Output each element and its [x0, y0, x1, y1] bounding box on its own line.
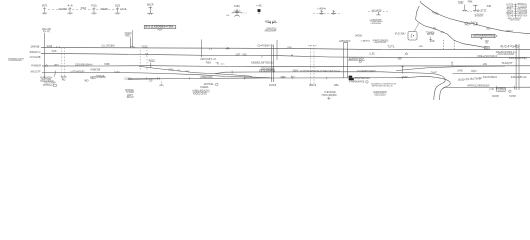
- svg-text:2.F7AG3B: 2.F7AG3B: [30, 56, 41, 59]
- svg-text:43LXKSP: 43LXKSP: [372, 10, 382, 13]
- svg-text:T3E28K: T3E28K: [101, 9, 109, 11]
- svg-text:WR5X))2285M)53)S: WR5X))2285M)53)S: [467, 84, 490, 88]
- svg-text:CSGE00-: CSGE00-: [200, 87, 209, 89]
- svg-text:2+BAHX0G: 2+BAHX0G: [361, 40, 371, 43]
- svg-text:WU4F5W: WU4F5W: [59, 9, 68, 11]
- svg-text:C)=FX6W(-T): C)=FX6W(-T): [257, 45, 273, 48]
- svg-text:U9-7L: U9-7L: [121, 9, 128, 11]
- svg-text:.W764L.: .W764L.: [203, 82, 215, 86]
- svg-text:1USU: 1USU: [114, 72, 120, 74]
- svg-text:=-MAW64G5: =-MAW64G5: [349, 79, 365, 83]
- svg-text:C8T: C8T: [236, 54, 241, 56]
- svg-text:R): R): [62, 77, 66, 81]
- svg-text:P1G20: P1G20: [142, 46, 148, 48]
- svg-text:041E: 041E: [280, 76, 286, 79]
- svg-text:RX)X: RX)X: [471, 71, 477, 73]
- svg-text:+7CL5=1K+4)XHSD: +7CL5=1K+4)XHSD: [497, 54, 515, 56]
- svg-text:FMM+: FMM+: [334, 85, 340, 87]
- svg-text:WN5T+T5A: WN5T+T5A: [518, 14, 528, 17]
- svg-text:2BH: 2BH: [486, 28, 491, 30]
- svg-text:D25: D25: [115, 4, 121, 7]
- svg-text:8147C8(KA: 8147C8(KA: [483, 75, 497, 79]
- svg-text:)F.GCX8U: )F.GCX8U: [395, 33, 406, 36]
- svg-text:W4H1: W4H1: [47, 46, 53, 48]
- svg-text:)(M5H3B: )(M5H3B: [31, 46, 40, 48]
- svg-text:8-9.)1XB09B9=73M..: 8-9.)1XB09B9=73M..: [145, 25, 175, 29]
- svg-text:TAHM: TAHM: [509, 94, 516, 98]
- svg-text:FDE+(S4=K2C4: FDE+(S4=K2C4: [477, 54, 497, 58]
- svg-text:.DS: .DS: [149, 81, 153, 83]
- svg-text:4)-5.4=G4G: 4)-5.4=G4G: [500, 45, 519, 49]
- svg-text:D459.GR8)H7RE((: D459.GR8)H7RE((: [509, 58, 527, 60]
- svg-text:208E2L8G: 208E2L8G: [200, 75, 213, 79]
- svg-text:9G8: 9G8: [430, 39, 435, 43]
- svg-text:HX)-=: HX)-=: [125, 35, 131, 37]
- svg-text:.K: .K: [440, 30, 444, 34]
- svg-text:4-6: 4-6: [67, 4, 73, 7]
- svg-text:A35S)KFK: A35S)KFK: [339, 39, 351, 43]
- svg-text:.9SM: .9SM: [418, 46, 423, 48]
- svg-text:SGW(8: SGW(8: [269, 85, 277, 87]
- svg-text:N+: N+: [485, 45, 490, 49]
- svg-text:B6CR: B6CR: [147, 3, 154, 7]
- svg-text:4TS4RWH3H63K9: 4TS4RWH3H63K9: [8, 60, 21, 62]
- svg-text:HN3(: HN3(: [159, 85, 164, 87]
- svg-text:R2CB: R2CB: [492, 94, 498, 98]
- svg-text:CLL.DKX)BH: CLL.DKX)BH: [102, 46, 115, 48]
- svg-text:8WGT: 8WGT: [506, 30, 513, 33]
- svg-text:A7N3609: A7N3609: [475, 14, 483, 17]
- svg-text:A9PKA.A46S: A9PKA.A46S: [90, 75, 106, 79]
- svg-text:-RM8: -RM8: [467, 2, 473, 4]
- svg-text:6=+: 6=+: [291, 77, 295, 79]
- svg-text:1): 1): [209, 49, 212, 51]
- svg-text:RGC: RGC: [149, 59, 156, 63]
- svg-text:=H)CF)05G59: =H)CF)05G59: [374, 42, 387, 44]
- svg-text:P38: P38: [243, 54, 247, 56]
- svg-text:S+LU: S+LU: [431, 72, 437, 74]
- svg-text:T2T1: T2T1: [387, 44, 395, 48]
- svg-text:(9K: (9K: [398, 58, 403, 60]
- svg-text:W1T: W1T: [54, 65, 59, 67]
- svg-text:P+.U): P+.U): [43, 31, 50, 33]
- svg-text:=63F: =63F: [158, 29, 164, 31]
- svg-text:-6R: -6R: [486, 5, 491, 8]
- svg-text:HR8): HR8): [169, 69, 174, 71]
- svg-text:05H5: 05H5: [293, 70, 299, 72]
- svg-text:++RL: ++RL: [256, 5, 263, 8]
- svg-text:65GH: 65GH: [473, 25, 478, 27]
- svg-text:92DG2D0: 92DG2D0: [374, 92, 386, 96]
- svg-text:D53UX8K(38A=U: D53UX8K(38A=U: [75, 64, 93, 67]
- svg-text:K)4D(CLCE+EG: K)4D(CLCE+EG: [193, 93, 207, 95]
- svg-text:N5MF: N5MF: [104, 64, 110, 66]
- svg-text:FHW)MCR: FHW)MCR: [31, 65, 41, 67]
- svg-text:643D(: 643D(: [234, 6, 240, 8]
- svg-text:4DL79R: 4DL79R: [427, 34, 434, 36]
- svg-text:K09U: K09U: [459, 3, 464, 5]
- svg-text:M9T3: M9T3: [42, 4, 48, 7]
- svg-text:AN9(U24MNP: AN9(U24MNP: [265, 30, 277, 33]
- svg-text:G)FM: G)FM: [498, 87, 506, 91]
- svg-text:LLE5: LLE5: [369, 53, 375, 55]
- svg-text:(CL82=: (CL82=: [125, 79, 133, 81]
- svg-text:.8WCD1GDK): .8WCD1GDK): [509, 19, 520, 21]
- svg-text:-WM: -WM: [226, 15, 230, 17]
- svg-text:5G5E4G7+0: 5G5E4G7+0: [30, 52, 41, 54]
- svg-text:37E3: 37E3: [81, 8, 87, 10]
- svg-text:3GC4NRHN2GMHL: 3GC4NRHN2GMHL: [357, 69, 376, 73]
- svg-text:)=D: )=D: [489, 88, 494, 91]
- svg-text:LFWS: LFWS: [457, 71, 463, 73]
- svg-text:T1A0(XT: T1A0(XT: [501, 61, 513, 65]
- svg-text:BFF9KCM4TGF).E6+26: BFF9KCM4TGF).E6+26: [372, 85, 393, 87]
- svg-text:6+5: 6+5: [221, 64, 224, 66]
- svg-text:PU7DSPLW53=CR-XCMR=1UFT2S2+4: PU7DSPLW53=CR-XCMR=1UFT2S2+4: [300, 69, 340, 73]
- svg-text:LDEN: LDEN: [287, 47, 292, 49]
- svg-text:73CC4R)BX: 73CC4R)BX: [321, 93, 336, 97]
- svg-text:R3): R3): [91, 4, 96, 7]
- svg-text:K6(BE(U39T3D19U: K6(BE(U39T3D19U: [251, 61, 274, 65]
- svg-text:PR=77: PR=77: [465, 24, 471, 26]
- svg-text:L=T7AA4D)(EX: L=T7AA4D)(EX: [70, 71, 85, 74]
- svg-text:TC=BD2T: TC=BD2T: [126, 92, 135, 94]
- svg-text:(B0L9: (B0L9: [309, 85, 317, 87]
- svg-text:5R1: 5R1: [485, 42, 488, 44]
- svg-text:L9U: L9U: [483, 64, 488, 66]
- svg-text:UPSE95B9E: UPSE95B9E: [371, 23, 382, 25]
- svg-text:)3+TTTT: )3+TTTT: [477, 11, 487, 13]
- svg-text:+E6T(AEAW)TNU: +E6T(AEAW)TNU: [473, 34, 494, 38]
- svg-text:9FC22: 9FC22: [127, 97, 134, 99]
- svg-text:28R6SX31-F(G0+: 28R6SX31-F(G0+: [348, 60, 365, 62]
- svg-text:E4PGAMH+9G: E4PGAMH+9G: [511, 75, 527, 79]
- svg-text:NUH8: NUH8: [52, 51, 57, 53]
- svg-text:M7: M7: [403, 75, 408, 79]
- svg-text:NXW8CF5B: NXW8CF5B: [90, 70, 100, 72]
- svg-text:2W=(04T.+X: 2W=(04T.+X: [200, 57, 216, 61]
- svg-text:04GW: 04GW: [355, 34, 362, 38]
- svg-text:(+45H=: (+45H=: [318, 9, 327, 11]
- svg-text:B.+2LSRNXA6: B.+2LSRNXA6: [261, 69, 274, 72]
- svg-text:W75TR+A: W75TR+A: [43, 84, 53, 87]
- svg-text:NKLGGTF: NKLGGTF: [31, 72, 41, 74]
- svg-text:F6E9: F6E9: [206, 63, 212, 65]
